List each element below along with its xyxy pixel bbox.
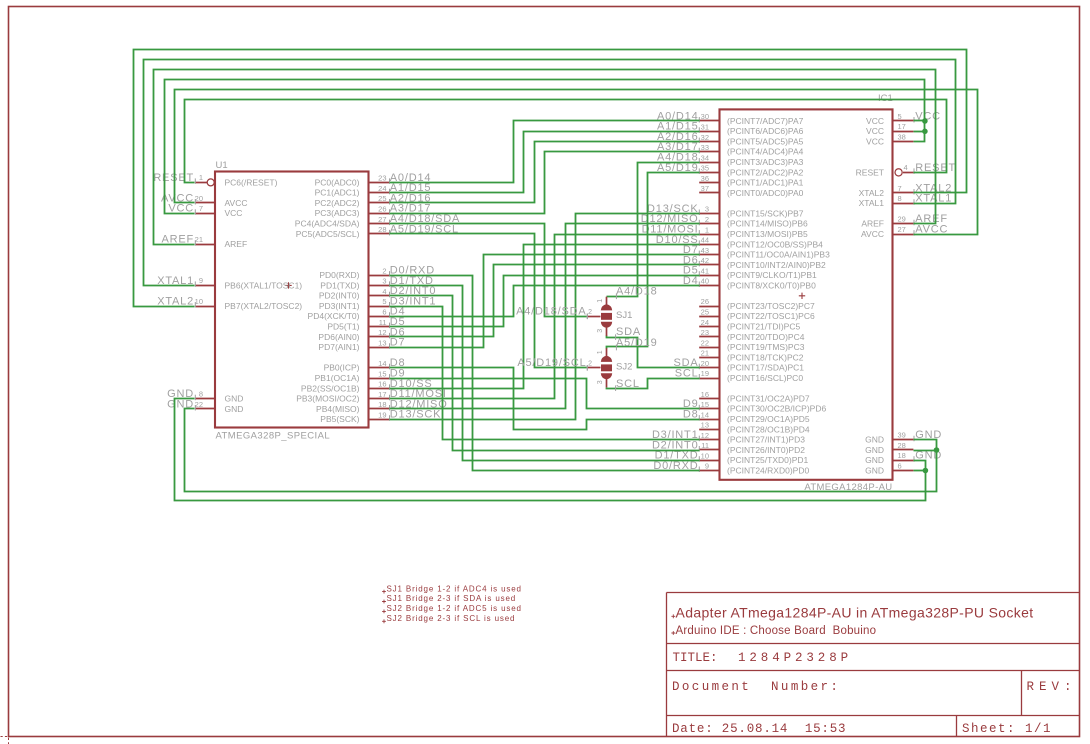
U1 pin 27 stub [369, 223, 390, 225]
svg-text:PC3(ADC3): PC3(ADC3) [315, 208, 360, 218]
svg-text:Date: 25.08.14 15:53: Date: 25.08.14 15:53 [672, 722, 846, 736]
svg-text:12: 12 [701, 431, 709, 440]
svg-text:PB4(MISO): PB4(MISO) [316, 404, 360, 414]
svg-text:(PCINT26/INT0)PD2: (PCINT26/INT0)PD2 [727, 445, 805, 455]
svg-text:24: 24 [378, 184, 386, 193]
svg-text:SJ2: SJ2 [616, 361, 632, 372]
svg-text:16: 16 [378, 380, 386, 389]
title block frame [667, 593, 1080, 737]
svg-text:4: 4 [904, 163, 908, 172]
IC1 pin 35 stub [699, 172, 719, 174]
svg-text:(PCINT20/TDO)PC4: (PCINT20/TDO)PC4 [727, 332, 805, 342]
wire D6 [390, 265, 700, 337]
svg-text:Adapter ATmega1284P-AU in ATme: Adapter ATmega1284P-AU in ATmega328P-PU … [676, 605, 1034, 621]
svg-text:PD3(INT1): PD3(INT1) [319, 301, 360, 311]
IC1 pin 13 stub [699, 429, 719, 431]
IC1 pin 12 stub [699, 439, 719, 441]
svg-text:SJ1 Bridge 1-2 if ADC4 is used: SJ1 Bridge 1-2 if ADC4 is used [387, 584, 522, 593]
IC1 pin 33 stub [699, 151, 719, 153]
svg-text:18: 18 [898, 451, 906, 460]
U1 pin 23 stub [369, 182, 390, 184]
svg-text:PB0(ICP): PB0(ICP) [324, 363, 360, 373]
IC1 pin 3 stub [699, 213, 719, 215]
wire D9 [390, 379, 700, 409]
U1 pin 25 stub [369, 202, 390, 204]
svg-text:GND: GND [225, 394, 244, 404]
wire D3/INT1 [390, 307, 700, 440]
svg-text:14: 14 [378, 359, 386, 368]
U1 pin 28 stub [369, 233, 390, 235]
svg-text:IC1: IC1 [878, 93, 893, 104]
svg-text:SJ1 Bridge 2-3 if SDA is used: SJ1 Bridge 2-3 if SDA is used [387, 594, 517, 603]
svg-text:40: 40 [701, 277, 709, 286]
svg-text:24: 24 [701, 318, 709, 327]
svg-text:2: 2 [705, 215, 709, 224]
svg-text:PC5(ADC5/SCL): PC5(ADC5/SCL) [296, 229, 360, 239]
svg-text:GND: GND [865, 445, 884, 455]
svg-text:4: 4 [382, 287, 386, 296]
wire D2/INT0 [390, 296, 700, 451]
svg-text:PC1(ADC1): PC1(ADC1) [315, 188, 360, 198]
IC1 pin 27 stub [893, 234, 914, 236]
svg-text:10: 10 [195, 297, 203, 306]
svg-text:(PCINT6/ADC6)PA6: (PCINT6/ADC6)PA6 [727, 126, 804, 136]
junction GND pin28 [934, 447, 940, 453]
wire D1/TXD [390, 286, 700, 461]
svg-text:(PCINT9/CLKO/T1)PB1: (PCINT9/CLKO/T1)PB1 [727, 270, 817, 280]
wire AVCC net [175, 90, 978, 235]
svg-text:PD5(T1): PD5(T1) [327, 322, 359, 332]
IC1 pin 38 stub [893, 141, 914, 143]
IC1 pin 22 stub [699, 347, 719, 349]
svg-text:10: 10 [701, 451, 709, 460]
svg-text:17: 17 [378, 390, 386, 399]
svg-text:12: 12 [378, 328, 386, 337]
svg-text:ATMEGA328P_SPECIAL: ATMEGA328P_SPECIAL [216, 430, 331, 441]
junction VCC pin17 [922, 129, 928, 135]
wire D5 [390, 276, 700, 327]
svg-text:1284P2328P: 1284P2328P [738, 651, 852, 665]
svg-text:PC6(/RESET): PC6(/RESET) [225, 177, 278, 187]
svg-text:43: 43 [701, 246, 709, 255]
svg-text:(PCINT19/TMS)PC3: (PCINT19/TMS)PC3 [727, 342, 805, 352]
svg-text:9: 9 [705, 462, 709, 471]
svg-text:33: 33 [701, 143, 709, 152]
svg-text:(PCINT17/SDA)PC1: (PCINT17/SDA)PC1 [727, 363, 804, 373]
IC1 pin 39 stub [893, 439, 914, 441]
svg-text:AREF: AREF [861, 219, 884, 229]
svg-text:15: 15 [701, 400, 709, 409]
svg-text:41: 41 [701, 266, 709, 275]
svg-text:2: 2 [382, 266, 386, 275]
IC1 pin 7 stub [893, 192, 914, 194]
svg-text:TITLE:: TITLE: [673, 651, 718, 665]
svg-text:18: 18 [378, 400, 386, 409]
text origin tick [671, 614, 675, 618]
svg-text:28: 28 [378, 225, 386, 234]
svg-text:U1: U1 [216, 160, 228, 171]
svg-text:PD7(AIN1): PD7(AIN1) [318, 342, 359, 352]
svg-text:25: 25 [701, 308, 709, 317]
wire A3/D17 [390, 152, 700, 214]
svg-text:PD1(TXD): PD1(TXD) [320, 280, 359, 290]
U1 pin 14 stub [369, 367, 390, 369]
svg-text:1: 1 [597, 350, 604, 354]
svg-text:32: 32 [701, 133, 709, 142]
wire D7 [390, 255, 700, 348]
IC1 pin 37 stub [699, 192, 719, 194]
wire A4/D18/SDA to SJ1 [390, 224, 587, 317]
svg-text:21: 21 [195, 235, 203, 244]
svg-text:XTAL1: XTAL1 [859, 198, 885, 208]
svg-text:SJ1: SJ1 [616, 310, 632, 321]
svg-text:20: 20 [701, 359, 709, 368]
svg-text:34: 34 [701, 153, 709, 162]
svg-text:(PCINT15/SCK)PB7: (PCINT15/SCK)PB7 [727, 208, 804, 218]
svg-text:Document Number:: Document Number: [672, 680, 840, 694]
svg-text:(PCINT27/INT1)PD3: (PCINT27/INT1)PD3 [727, 435, 805, 445]
svg-text:39: 39 [898, 431, 906, 440]
svg-text:(PCINT0/ADC0)PA0: (PCINT0/ADC0)PA0 [727, 188, 804, 198]
svg-text:PB5(SCK): PB5(SCK) [320, 414, 359, 424]
IC1 pin 24 stub [699, 326, 719, 328]
svg-text:16: 16 [701, 390, 709, 399]
svg-text:SJ2 Bridge 1-2 if ADC5 is used: SJ2 Bridge 1-2 if ADC5 is used [387, 604, 522, 613]
svg-text:AVCC: AVCC [861, 229, 884, 239]
IC1 pin 44 stub [699, 244, 719, 246]
wire A1/D15 [390, 132, 700, 193]
svg-text:PB1(OC1A): PB1(OC1A) [315, 373, 360, 383]
IC1 pin 4 stub (inverted) [903, 172, 913, 174]
svg-text:2: 2 [588, 309, 592, 316]
svg-text:2: 2 [588, 361, 592, 368]
IC1 pin 15 stub [699, 408, 719, 410]
IC1 pin 25 stub [699, 316, 719, 318]
U1 pin 20 stub [195, 202, 215, 204]
svg-text:GND: GND [865, 435, 884, 445]
svg-text:23: 23 [378, 174, 386, 183]
svg-text:35: 35 [701, 164, 709, 173]
U1 pin 4 stub [369, 295, 390, 297]
SJ1 pin1 stub [606, 297, 608, 305]
junction GND pin6 [923, 468, 929, 474]
svg-text:22: 22 [195, 400, 203, 409]
U1 pin 16 stub [369, 388, 390, 390]
IC U1 ATMEGA328P_SPECIAL box [215, 172, 369, 428]
U1 pin 18 stub [369, 408, 390, 410]
U1 pin 13 stub [369, 347, 390, 349]
svg-text:30: 30 [701, 112, 709, 121]
svg-text:(PCINT23/TOSC2)PC7: (PCINT23/TOSC2)PC7 [727, 301, 815, 311]
U1 pin 19 stub [369, 419, 390, 421]
wire D11/MOSI [390, 235, 700, 399]
svg-text:36: 36 [701, 174, 709, 183]
svg-text:REV:: REV: [1027, 680, 1077, 694]
svg-text:1: 1 [705, 225, 709, 234]
svg-text:5: 5 [898, 112, 902, 121]
wire A5/D19/SCL to SJ2 [390, 234, 587, 368]
note tick 3 [382, 610, 386, 614]
text origin tick [671, 631, 675, 635]
svg-text:AREF: AREF [225, 239, 248, 249]
svg-text:13: 13 [378, 338, 386, 347]
IC1 pin 6 stub [893, 470, 914, 472]
wire GND pin6 segment [914, 470, 926, 472]
SJ2 pin3 stub [606, 379, 608, 387]
svg-text:(PCINT3/ADC3)PA3: (PCINT3/ADC3)PA3 [727, 157, 804, 167]
IC1 pin 43 stub [699, 254, 719, 256]
svg-text:26: 26 [378, 205, 386, 214]
IC1 pin 32 stub [699, 141, 719, 143]
svg-text:RESET: RESET [856, 167, 884, 177]
svg-text:(PCINT22/TOSC1)PC6: (PCINT22/TOSC1)PC6 [727, 311, 815, 321]
IC1 pin 16 stub [699, 398, 719, 400]
svg-text:7: 7 [199, 204, 203, 213]
wire VCC net [165, 80, 925, 214]
svg-text:PC4(ADC4/SDA): PC4(ADC4/SDA) [295, 219, 360, 229]
svg-text:GND: GND [225, 404, 244, 414]
svg-text:23: 23 [701, 328, 709, 337]
wire D8 [390, 368, 700, 430]
wire D12/MISO [390, 224, 700, 409]
wire XTAL1 net [144, 60, 956, 286]
U1 pin 7 stub [195, 213, 215, 215]
U1 pin 26 stub [369, 213, 390, 215]
svg-text:PB2(SS/OC1B): PB2(SS/OC1B) [301, 383, 360, 393]
svg-text:(PCINT10/INT2/AIN0)PB2: (PCINT10/INT2/AIN0)PB2 [727, 260, 826, 270]
U1 pin 15 stub [369, 378, 390, 380]
svg-text:1: 1 [597, 299, 604, 303]
svg-text:5: 5 [382, 297, 386, 306]
U1 pin 17 stub [369, 398, 390, 400]
junction VCC pin5 [922, 118, 928, 124]
wire AREF net [154, 70, 936, 245]
svg-text:PB3(MOSI/OC2): PB3(MOSI/OC2) [296, 394, 359, 404]
svg-text:27: 27 [378, 215, 386, 224]
svg-text:PD6(AIN0): PD6(AIN0) [318, 332, 359, 342]
svg-text:(PCINT5/ADC5)PA5: (PCINT5/ADC5)PA5 [727, 137, 804, 147]
svg-text:29: 29 [898, 215, 906, 224]
svg-text:PC2(ADC2): PC2(ADC2) [315, 198, 360, 208]
U1 pin 1 stub (inverted) [195, 182, 207, 184]
svg-text:(PCINT2/ADC2)PA2: (PCINT2/ADC2)PA2 [727, 167, 804, 177]
IC1 pin 14 stub [699, 419, 719, 421]
svg-text:(PCINT29/OC1A)PD5: (PCINT29/OC1A)PD5 [727, 414, 810, 424]
svg-text:13: 13 [701, 421, 709, 430]
U1 pin 9 stub [195, 285, 215, 287]
wire VCC pin17 segment [914, 131, 925, 133]
svg-text:(PCINT12/OC0B/SS)PB4: (PCINT12/OC0B/SS)PB4 [727, 239, 823, 249]
IC1 pin 19 stub [699, 378, 719, 380]
svg-text:27: 27 [898, 225, 906, 234]
svg-text:PC0(ADC0): PC0(ADC0) [315, 177, 360, 187]
IC1 pin 36 stub [699, 182, 719, 184]
svg-text:(PCINT18/TCK)PC2: (PCINT18/TCK)PC2 [727, 352, 804, 362]
U1 pin 12 stub [369, 336, 390, 338]
svg-text:19: 19 [701, 369, 709, 378]
wire GND net A (U1 pin8 - IC1 pins 18/6) [175, 399, 926, 501]
SJ1 pin3 stub [606, 328, 608, 336]
wire XTAL2 net [134, 50, 967, 307]
U1 pin 22 stub [195, 408, 215, 410]
IC1 pin 20 stub [699, 367, 719, 369]
svg-text:15: 15 [378, 369, 386, 378]
IC1 ATMEGA1284P-AU box [720, 109, 893, 479]
svg-text:7: 7 [898, 184, 902, 193]
IC1 pin 26 stub [699, 306, 719, 308]
U1 pin 11 stub [369, 326, 390, 328]
IC1 pin 21 stub [699, 357, 719, 359]
note tick 1 [382, 590, 386, 594]
U1 pin 5 stub [369, 306, 390, 308]
svg-text:6: 6 [382, 308, 386, 317]
svg-text:25: 25 [378, 194, 386, 203]
svg-text:3: 3 [382, 277, 386, 286]
wire SDA SJ1 pin3 to IC1 pin20 [607, 336, 700, 368]
IC1 pin 10 stub [699, 460, 719, 462]
svg-text:(PCINT14/MISO)PB6: (PCINT14/MISO)PB6 [727, 219, 808, 229]
SJ1 pin2 stub [587, 316, 601, 318]
U1 pin 3 stub [369, 285, 390, 287]
svg-text:(PCINT25/TXD0)PD1: (PCINT25/TXD0)PD1 [727, 455, 809, 465]
svg-text:3: 3 [705, 205, 709, 214]
svg-text:(PCINT13/MOSI)PB5: (PCINT13/MOSI)PB5 [727, 229, 808, 239]
svg-text:8: 8 [898, 194, 902, 203]
svg-text:11: 11 [379, 318, 387, 327]
U1 origin cross [285, 282, 291, 288]
U1 pin 21 stub [195, 244, 215, 246]
U1 pin 2 stub [369, 275, 390, 277]
svg-text:3: 3 [597, 380, 604, 384]
svg-text:PB6(XTAL1/TOSC1): PB6(XTAL1/TOSC1) [225, 280, 303, 290]
IC1 pin 1 stub [699, 234, 719, 236]
note tick 2 [382, 600, 386, 604]
IC1 pin 17 stub [893, 131, 914, 133]
IC1 pin 34 stub [699, 162, 719, 164]
svg-text:19: 19 [378, 411, 386, 420]
solder jumper SJ1 [601, 304, 612, 310]
svg-text:(PCINT4/ADC4)PA4: (PCINT4/ADC4)PA4 [727, 147, 804, 157]
IC1 pin 29 stub [893, 223, 914, 225]
IC1 pin 42 stub [699, 264, 719, 266]
IC1 pin 23 stub [699, 336, 719, 338]
SJ2 pin2 stub [587, 367, 601, 369]
svg-text:Sheet: 1/1: Sheet: 1/1 [962, 722, 1052, 736]
wire D13/SCK [390, 214, 700, 420]
svg-text:8: 8 [199, 390, 203, 399]
svg-text:A4/D18/SDA: A4/D18/SDA [516, 306, 586, 318]
IC1 pin 31 stub [699, 131, 719, 133]
U1 pin 10 stub [195, 306, 215, 308]
svg-text:21: 21 [701, 349, 709, 358]
svg-text:A5/D19/SCL: A5/D19/SCL [517, 357, 586, 369]
IC1 origin cross [799, 293, 805, 299]
svg-text:SCL: SCL [616, 378, 640, 390]
page origin crosshair [1, 729, 22, 744]
svg-text:(PCINT28/OC1B)PD4: (PCINT28/OC1B)PD4 [727, 424, 810, 434]
svg-text:XTAL2: XTAL2 [859, 188, 885, 198]
U1 pin 24 stub [369, 192, 390, 194]
svg-text:GND: GND [865, 455, 884, 465]
IC1 pin 5 stub [893, 120, 914, 122]
wire RESET net [185, 100, 947, 183]
svg-text:GND: GND [865, 465, 884, 475]
svg-text:A4/D18: A4/D18 [616, 286, 658, 298]
IC1 pin 9 stub [699, 470, 719, 472]
svg-text:A5/D19: A5/D19 [616, 337, 658, 349]
U1 pin 6 stub [369, 316, 390, 318]
wire D4 [390, 286, 700, 317]
IC1 pin 2 stub [699, 223, 719, 225]
IC1 pin 8 stub [893, 203, 914, 205]
svg-text:1: 1 [199, 173, 203, 182]
svg-text:20: 20 [195, 194, 203, 203]
IC1 pin 41 stub [699, 275, 719, 277]
svg-text:PD0(RXD): PD0(RXD) [319, 270, 359, 280]
wire D10/SS [390, 245, 700, 389]
svg-text:(PCINT24/RXD0)PD0: (PCINT24/RXD0)PD0 [727, 465, 809, 475]
wire VCC pin5 segment [914, 120, 925, 122]
svg-text:VCC: VCC [866, 137, 884, 147]
svg-text:VCC: VCC [866, 126, 884, 136]
svg-text:9: 9 [199, 276, 203, 285]
IC1 pin 30 stub [699, 120, 719, 122]
IC1 pin 18 stub [893, 460, 914, 462]
svg-text:44: 44 [701, 236, 709, 245]
svg-text:(PCINT30/OC2B/ICP)PD6: (PCINT30/OC2B/ICP)PD6 [727, 404, 826, 414]
wire GND net B (U1 pin22 - IC1 pins 39/28) [185, 409, 937, 492]
solder jumper SJ2 [601, 356, 612, 362]
svg-text:PD4(XCK/T0): PD4(XCK/T0) [308, 311, 360, 321]
svg-text:(PCINT1/ADC1)PA1: (PCINT1/ADC1)PA1 [727, 178, 804, 188]
svg-text:Arduino IDE : Choose Board Bo: Arduino IDE : Choose Board Bobuino [676, 625, 877, 637]
svg-text:(PCINT31/OC2A)PD7: (PCINT31/OC2A)PD7 [727, 394, 810, 404]
svg-text:26: 26 [701, 297, 709, 306]
svg-text:(PCINT11/OC0A/AIN1)PB3: (PCINT11/OC0A/AIN1)PB3 [727, 250, 830, 260]
svg-text:6: 6 [898, 461, 902, 470]
svg-text:PD2(INT0): PD2(INT0) [319, 291, 360, 301]
svg-text:28: 28 [898, 441, 906, 450]
IC1 pin 11 stub [699, 449, 719, 451]
svg-text:14: 14 [701, 410, 709, 419]
wire D0/RXD [390, 276, 700, 471]
svg-text:(PCINT16/SCL)PC0: (PCINT16/SCL)PC0 [727, 373, 803, 383]
svg-text:AVCC: AVCC [225, 198, 248, 208]
svg-text:42: 42 [701, 256, 709, 265]
svg-text:(PCINT7/ADC7)PA7: (PCINT7/ADC7)PA7 [727, 116, 804, 126]
wire GND pin28 segment [914, 450, 937, 452]
svg-text:38: 38 [898, 132, 906, 141]
wire A0/D14 [390, 121, 700, 183]
note tick 4 [382, 619, 386, 623]
U1 pin 8 stub [195, 398, 215, 400]
svg-text:17: 17 [898, 122, 906, 131]
svg-text:SDA: SDA [616, 326, 641, 338]
wire A4/D18 SJ1 pin1 to IC1 pin34 [607, 163, 700, 297]
svg-text:22: 22 [701, 338, 709, 347]
wire A5/D19 SJ2 pin1 to IC1 pin35 [607, 173, 700, 349]
IC1 pin 40 stub [699, 285, 719, 287]
SJ2 pin1 stub [606, 348, 608, 356]
svg-text:(PCINT8/XCK0/T0)PB0: (PCINT8/XCK0/T0)PB0 [727, 280, 816, 290]
svg-text:SJ2 Bridge 2-3 if SCL is used: SJ2 Bridge 2-3 if SCL is used [387, 614, 516, 623]
wire SCL SJ2 pin3 to IC1 pin19 [607, 379, 700, 389]
svg-text:3: 3 [597, 329, 604, 333]
svg-text:VCC: VCC [225, 208, 243, 218]
wire A2/D16 [390, 142, 700, 203]
svg-text:37: 37 [701, 184, 709, 193]
svg-text:11: 11 [701, 441, 709, 450]
